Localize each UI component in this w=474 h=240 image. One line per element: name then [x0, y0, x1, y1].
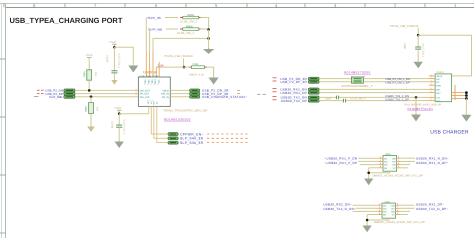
connector right stubs — [452, 93, 466, 99]
svg-text:1: 1 — [144, 83, 145, 85]
IC U5001 left pin numbers — [136, 88, 137, 97]
wire cap to conn TX2_DN — [339, 96, 429, 98]
svg-text:USB30_TX2_C_DP: USB30_TX2_C_DP — [385, 98, 409, 101]
svg-text:0.1UF_CM_J: 0.1UF_CM_J — [422, 43, 425, 57]
common-mode choke L901 — [351, 75, 365, 83]
wire P5V0A stub — [417, 28, 419, 35]
svg-text:DM_IN: DM_IN — [161, 93, 168, 96]
wire U5001 bottom pin to CPPWR_EN — [151, 106, 168, 134]
svg-text:~USB30_RX1_P_DN: ~USB30_RX1_P_DN — [324, 157, 357, 160]
svg-text:3: 3 — [431, 80, 432, 82]
wire esd1 gnd vert from pin4 — [368, 168, 370, 173]
svg-text:3: 3 — [151, 83, 152, 85]
wire cap to conn TX2_DP — [346, 100, 429, 102]
svg-text:VC: VC — [392, 214, 395, 216]
svg-text:R951: R951 — [83, 71, 86, 77]
svg-text:2: 2 — [394, 3, 397, 8]
svg-text:6: 6 — [398, 162, 399, 164]
svg-text:IO1: IO1 — [383, 205, 386, 207]
svg-text:EN: EN — [152, 102, 154, 105]
svg-text:R903: R903 — [188, 14, 195, 17]
wire SLPP_WB drop to U5001 pin2 — [149, 29, 151, 52]
IC U5001 top pin names — [144, 80, 160, 84]
fuse F951 — [189, 63, 207, 77]
svg-text:ST: ST — [155, 102, 157, 105]
junction pulldown row3 — [90, 95, 93, 98]
sheet frame top outer line — [0, 3, 474, 5]
svg-text:10K: 10K — [94, 72, 97, 76]
wire R904 to bus — [201, 28, 209, 30]
svg-text:USB_P2_DP: USB_P2_DP — [45, 92, 63, 95]
port USB_P2_DN mid — [308, 77, 319, 80]
wire U5001 bottom pin to SLP_S3 — [157, 106, 168, 142]
junction P5V0A right — [417, 34, 420, 37]
wire esd2 in1 — [353, 204, 379, 206]
wire USB_P2_DN to U5001 — [75, 89, 138, 91]
svg-text:IO6: IO6 — [392, 164, 395, 166]
svg-text:5: 5 — [157, 83, 158, 85]
ground C1016 — [116, 142, 123, 147]
sheet frame left ruler line — [5, 4, 7, 239]
svg-text:2: 2 — [431, 77, 432, 79]
wire P5V8 to gnd corner — [114, 47, 133, 66]
wire SLPP_H6 row — [165, 17, 178, 19]
svg-text:5: 5 — [215, 3, 218, 8]
svg-text:DM_U1P: DM_U1P — [140, 96, 150, 99]
series cap TX2_DN — [336, 96, 338, 100]
svg-text:USB30_TX2_C_DN: USB30_TX2_C_DN — [385, 95, 409, 98]
wire U5001 DM to port — [170, 93, 189, 95]
svg-text:USB30_TX2_DP: USB30_TX2_DP — [281, 99, 307, 102]
svg-text:IO7: IO7 — [392, 161, 395, 163]
directive mark row3 — [34, 96, 39, 98]
port SLP_S3 — [168, 141, 178, 144]
ground esd2 — [363, 226, 370, 231]
svg-text:VC: VC — [393, 167, 396, 169]
svg-text:ILM: ILM — [151, 80, 153, 84]
wire esd2 out4 — [400, 214, 408, 216]
svg-text:7: 7 — [398, 159, 399, 161]
port AUX_DBL — [64, 95, 75, 98]
IC U5001 right pin names — [161, 89, 169, 98]
esd U902 pin names — [383, 205, 395, 217]
svg-text:1 1 1 1: 1 1 1 1 — [147, 99, 153, 101]
ground shield — [462, 115, 470, 121]
svg-text:USB30_RX2_DP~: USB30_RX2_DP~ — [416, 203, 445, 206]
svg-text:USB30_RX1_N_DN~: USB30_RX1_N_DN~ — [416, 157, 449, 160]
svg-text:R1D0B67F0GE1: R1D0B67F0GE1 — [408, 107, 433, 110]
svg-text:3: 3 — [380, 162, 381, 164]
ground bus — [204, 48, 213, 53]
wire U5001 DP to port — [170, 96, 189, 98]
svg-text:USB_P2_CM_L_DP: USB_P2_CM_L_DP — [386, 81, 410, 84]
svg-text:8: 8 — [398, 156, 399, 158]
svg-text:4: 4 — [380, 166, 381, 168]
svg-text:P3V8: P3V8 — [115, 107, 121, 110]
ground esd1 — [365, 179, 372, 184]
junction P5V8 cap — [113, 46, 116, 49]
svg-text:7: 7 — [431, 95, 432, 97]
junction TX row gnd — [415, 96, 418, 99]
svg-text:3: 3 — [379, 209, 380, 211]
wire shield to gnd — [465, 99, 467, 116]
wire USB_P2_DN to choke — [319, 78, 351, 80]
svg-text:2: 2 — [379, 206, 380, 208]
IC U5001 body — [138, 77, 170, 106]
svg-text:USB_CHARGER_STATUS#~: USB_CHARGER_STATUS#~ — [202, 95, 248, 98]
IC U5001 bottom pin names — [147, 99, 158, 104]
svg-text:5: 5 — [397, 212, 398, 214]
svg-text:USB30_TX2_D_DP~: USB30_TX2_D_DP~ — [416, 207, 449, 210]
svg-text:C988: C988 — [403, 43, 406, 49]
svg-text:SLPP_WB: SLPP_WB — [148, 28, 162, 31]
svg-text:GND: GND — [436, 85, 441, 87]
svg-text:USB CHARGER: USB CHARGER — [430, 129, 468, 135]
svg-text:USB30_TX2_D_DN~: USB30_TX2_D_DN~ — [323, 207, 356, 210]
svg-text:IO8: IO8 — [391, 205, 394, 207]
svg-text:DP: DP — [436, 81, 439, 83]
port USB_P2_DN — [64, 89, 75, 92]
svg-text:IO8: IO8 — [392, 158, 395, 160]
wire esd1 in1 — [358, 157, 379, 159]
svg-text:B014B0375G91: B014B0375G91 — [344, 71, 371, 75]
svg-text:DM_OUT: DM_OUT — [140, 89, 150, 92]
svg-text:IO3: IO3 — [383, 211, 386, 213]
svg-text:RX2: RX2 — [436, 92, 440, 94]
svg-text:DN: DN — [436, 78, 439, 80]
wire U5001 bottom pin to P3V8 — [148, 106, 150, 113]
junction bus mid — [207, 37, 210, 40]
port USB_P2_DN_3R — [190, 89, 200, 92]
ruler column ticks — [4, 4, 425, 8]
svg-text:R952: R952 — [84, 106, 87, 112]
wire row3 drop to U5001 pin3 — [152, 38, 154, 52]
wire R903 to bus — [201, 18, 209, 30]
svg-text:0.1UF_45V_J: 0.1UF_45V_J — [350, 98, 365, 101]
ground C988 — [415, 62, 422, 67]
svg-text:IO2: IO2 — [383, 208, 386, 210]
svg-text:10.0K_CM_J: 10.0K_CM_J — [177, 32, 194, 35]
svg-text:10.0K_CM_J: 10.0K_CM_J — [180, 20, 197, 23]
esd U902 pin numbers right — [397, 203, 398, 215]
wire esd1 out3 — [401, 164, 410, 166]
wire esd1 out4 — [401, 167, 408, 169]
svg-text:BC: BC — [147, 102, 149, 105]
svg-text:IO6: IO6 — [391, 211, 394, 213]
svg-text:TRANS_TPS2546TRG_QFN_16P: TRANS_TPS2546TRG_QFN_16P — [163, 109, 207, 112]
junction esd1 gnd — [367, 172, 370, 175]
wire P5V0A to connector — [418, 35, 471, 76]
ruler column numbers — [33, 3, 457, 8]
esd U901 body — [383, 156, 397, 172]
esd U902 body — [382, 203, 396, 218]
svg-text:IO1: IO1 — [384, 158, 387, 160]
capacitor C988 — [403, 35, 424, 62]
svg-text:8: 8 — [136, 91, 137, 93]
svg-text:1: 1 — [431, 74, 432, 76]
svg-text:1: 1 — [379, 203, 380, 205]
wire TX2_DP to cap — [319, 100, 343, 102]
resistor R952 pulldown — [84, 103, 98, 114]
svg-text:4: 4 — [364, 75, 365, 77]
power arrow P5V0A down — [210, 78, 218, 84]
svg-text:DP_IN: DP_IN — [162, 96, 169, 99]
svg-text:4: 4 — [379, 212, 380, 214]
wire AUX_DBL to U5001 — [75, 96, 138, 98]
esd U901 pin numbers left — [380, 156, 381, 168]
red x2 marks column — [273, 78, 277, 100]
resistor R951 pullup — [83, 70, 97, 80]
wire bus down — [208, 30, 210, 49]
svg-text:6: 6 — [431, 91, 432, 93]
svg-text:2: 2 — [147, 83, 148, 85]
IC U5001 top pin numbers — [144, 83, 158, 85]
svg-text:7: 7 — [397, 206, 398, 208]
svg-text:PULLDNRSPR_46050_0508_4P: PULLDNRSPR_46050_0508_4P — [405, 103, 442, 106]
svg-text:SLP_S3#_3R: SLP_S3#_3R — [180, 141, 203, 145]
wire esd2 in4 — [367, 214, 378, 216]
svg-text:4: 4 — [275, 3, 278, 8]
power label P3V8 — [115, 107, 122, 114]
wire esd1 in3 — [360, 164, 379, 166]
wire USB_P2_DP to choke — [319, 81, 351, 83]
svg-text:5: 5 — [398, 166, 399, 168]
port USB_CHARGER_STATUS — [190, 95, 200, 98]
wire USB30_RX1_DP to conn — [319, 92, 429, 94]
port USB30_RX1_DN — [308, 88, 319, 91]
wire drop to U5001 pin4 — [155, 67, 157, 77]
svg-text:2: 2 — [380, 159, 381, 161]
svg-text:P5V8: P5V8 — [110, 41, 116, 44]
svg-text:STA: STA — [157, 80, 159, 84]
svg-text:AVCRGA2255MMEL_Y: AVCRGA2255MMEL_Y — [341, 85, 373, 88]
series cap TX2_DP — [343, 99, 345, 103]
svg-text:0.1UF_CM_J: 0.1UF_CM_J — [123, 120, 126, 134]
wire esd1 out2 — [401, 160, 415, 162]
svg-text:7: 7 — [136, 95, 137, 97]
svg-text:8: 8 — [33, 3, 36, 8]
svg-text:TX1: TX1 — [436, 97, 440, 99]
svg-text:CPPWR_EN~: CPPWR_EN~ — [180, 133, 204, 137]
svg-text:GN: GN — [384, 167, 387, 169]
wire esd2 gnd — [367, 218, 389, 226]
power arrow pulldown — [87, 113, 95, 131]
svg-text:USB30_RX2_DN~: USB30_RX2_DN~ — [323, 203, 352, 206]
svg-text:USB_TYPEA_CHARGING PORT: USB_TYPEA_CHARGING PORT — [10, 16, 123, 25]
svg-text:6: 6 — [397, 209, 398, 211]
svg-text:AUX_DBL: AUX_DBL — [49, 96, 63, 99]
esd U902 left stubs — [378, 205, 382, 214]
junction esd2 gnd — [366, 219, 369, 222]
ruler left row ticks — [0, 59, 6, 233]
port USB_P2_DP_3R — [190, 92, 200, 95]
connector left pin stubs — [429, 76, 435, 101]
svg-text:SM8S5C_ACD4S_ACD45_S4P_5YG_14P: SM8S5C_ACD4S_ACD45_S4P_5YG_14P — [372, 174, 423, 177]
svg-text:1: 1 — [454, 3, 457, 8]
port USB30_TX2_DN — [308, 96, 319, 99]
wire TX2_DN to cap — [319, 96, 336, 98]
connector pin names — [436, 75, 442, 102]
svg-text:8: 8 — [431, 99, 432, 101]
resistor R904 — [177, 25, 201, 35]
svg-text:C1013: C1013 — [106, 55, 109, 62]
capacitor C1016 — [111, 114, 126, 142]
wire U5001 bottom pin to SLP_S4 — [154, 106, 168, 138]
svg-text:1: 1 — [351, 75, 352, 77]
junction P5V0A left — [183, 66, 186, 69]
connector J5001 body — [435, 74, 451, 102]
svg-text:USB_P2_DN: USB_P2_DN — [45, 89, 63, 92]
wire P5V0A to fuse — [156, 66, 189, 68]
svg-text:IO2: IO2 — [384, 161, 387, 163]
wire esd2 in2 — [356, 207, 379, 209]
svg-text:SM8S5C_ACD4S_ACD45_S4P_5YG_14P: SM8S5C_ACD4S_ACD45_S4P_5YG_14P — [374, 221, 425, 224]
svg-text:USB30_RX1_N_DP~: USB30_RX1_N_DP~ — [416, 161, 449, 164]
junction P3V8 — [118, 112, 121, 115]
port CPPWR_EN — [168, 133, 178, 136]
wire U5001 VBUS to port — [170, 89, 189, 91]
svg-text:R904: R904 — [186, 25, 193, 28]
ground TX row — [412, 115, 420, 121]
svg-text:P5V0A_USB_CHARGE: P5V0A_USB_CHARGE — [390, 25, 419, 28]
directive marks left of USB_P2_DN — [37, 90, 44, 93]
port USB30_TX2_DP — [308, 99, 319, 102]
svg-text:4: 4 — [431, 83, 432, 85]
svg-text:USB_P2_DP_3R: USB_P2_DP_3R — [280, 81, 307, 84]
svg-text:DP_OUT: DP_OUT — [140, 93, 150, 96]
svg-text:P5V0A_USB_CHARGE: P5V0A_USB_CHARGE — [164, 55, 193, 58]
svg-text:USB30_RX1_DP: USB30_RX1_DP — [280, 91, 307, 94]
svg-text:GN: GN — [383, 214, 386, 216]
svg-text:VBUS: VBUS — [436, 75, 442, 77]
wire P3V8 to U5001 bottom pin — [119, 113, 149, 115]
esd U901 right stubs — [397, 158, 401, 168]
wire USB_P2_DP to U5001 — [75, 93, 138, 95]
wire choke to conn DP — [363, 81, 428, 83]
wire pullup to row1 — [88, 80, 90, 90]
svg-text:B01AB1030S01: B01AB1030S01 — [164, 118, 191, 122]
svg-text:~USB30_RX1_P_DP: ~USB30_RX1_P_DP — [324, 161, 357, 164]
power label P5V8 pullup — [86, 54, 92, 70]
tilde marks after labels — [237, 90, 240, 93]
svg-text:U5001A: U5001A — [143, 71, 156, 75]
sheet frame top inner border — [6, 7, 474, 9]
svg-text:F951: F951 — [193, 63, 199, 66]
wire esd2 in3 — [353, 210, 379, 212]
esd U901 pin numbers right — [398, 156, 399, 168]
capacitor C1013 — [106, 47, 121, 84]
wire USB30_RX1_DN to conn — [319, 88, 429, 90]
svg-text:SLP_S4#_3R: SLP_S4#_3R — [180, 137, 203, 141]
svg-text:TX2: TX2 — [436, 100, 440, 102]
wire esd1 in4 — [369, 167, 379, 169]
svg-text:CT: CT — [150, 102, 152, 105]
svg-text:10K: 10K — [96, 107, 99, 111]
svg-text:SLPP_H6: SLPP_H6 — [148, 17, 161, 20]
wire esd2 out3 — [400, 210, 410, 212]
svg-text:0.1UF_CM_J: 0.1UF_CM_J — [118, 54, 121, 68]
esd U901 left stubs — [379, 158, 383, 168]
svg-text:C1016: C1016 — [111, 121, 114, 128]
junction pullup row1 — [88, 89, 91, 92]
wire third row — [153, 37, 209, 39]
svg-text:IO7: IO7 — [391, 208, 394, 210]
wire esd2 out2 — [400, 207, 415, 209]
small gray marks mid — [257, 93, 266, 95]
IC U5001 left pin names — [140, 89, 150, 98]
svg-text:P5V8: P5V8 — [86, 54, 92, 57]
svg-text:9: 9 — [136, 88, 137, 90]
wire label stub down — [183, 58, 185, 67]
wire fuse to arrow — [207, 67, 214, 78]
svg-text:8: 8 — [397, 203, 398, 205]
svg-text:6: 6 — [155, 3, 158, 8]
svg-text:USB4F_6.3V: USB4F_6.3V — [189, 74, 204, 77]
wire TX gnd drop — [415, 97, 417, 115]
svg-text:IO3: IO3 — [384, 164, 387, 166]
port USB_P2_DP — [64, 92, 75, 95]
connector right pin numbers column — [454, 85, 456, 100]
wire esd1 in2 — [358, 160, 379, 162]
wire SLPP_WB row — [166, 28, 178, 30]
svg-text:RX1: RX1 — [436, 89, 440, 91]
power label P5V8 cap — [110, 41, 117, 47]
svg-text:5: 5 — [431, 87, 432, 89]
connector left pin numbers — [431, 74, 432, 101]
wire choke to conn DN — [363, 78, 428, 80]
junction bus top — [207, 28, 210, 31]
port SLP_S4 — [168, 137, 178, 140]
wire esd1 out1 — [401, 157, 415, 159]
svg-text:VBUS: VBUS — [162, 89, 169, 92]
connector shield dots — [465, 91, 468, 100]
esd U901 pin names — [384, 158, 396, 170]
ground top-left — [129, 66, 137, 72]
svg-text:1: 1 — [380, 156, 381, 158]
wire esd1 gnd — [369, 171, 390, 179]
svg-text:4: 4 — [154, 83, 155, 85]
svg-text:7: 7 — [94, 3, 97, 8]
esd U902 right stubs — [396, 205, 400, 214]
wire SLPP_H6 drop to U5001 pin1 — [145, 18, 147, 53]
wire drop to U5001 pin5 — [158, 62, 160, 77]
wire esd2 gnd vert from pin4 — [366, 215, 368, 221]
wire pulldown from row3 — [90, 97, 92, 102]
port USB30_RX1_DP — [308, 91, 319, 94]
svg-text:USB_P2_CM_L_DN: USB_P2_CM_L_DN — [386, 78, 410, 81]
sheet frame left outer line — [1, 4, 3, 239]
svg-text:3: 3 — [334, 3, 337, 8]
port USB_P2_DP mid — [308, 80, 319, 83]
esd U902 pin numbers left — [379, 203, 380, 215]
resistor R903 — [180, 14, 201, 24]
directive dashes CPPWR_EN — [207, 134, 250, 143]
wire esd2 out1 — [400, 204, 415, 206]
